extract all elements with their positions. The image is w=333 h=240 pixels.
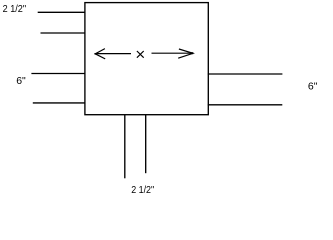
wire right stub 1 (6" branch) — [208, 73, 283, 75]
dimension arrow left head — [95, 49, 105, 59]
wire bottom stub A (2 1/2" branch) — [124, 115, 126, 179]
svg-text:6": 6" — [308, 80, 318, 92]
dimension arrow right tip blob — [190, 52, 193, 54]
wire left stub 1 (2 1/2" branch) — [38, 11, 86, 13]
svg-text:2 1/2": 2 1/2" — [3, 3, 27, 15]
fitting body box — [85, 3, 208, 115]
dimension arrow right shaft — [152, 52, 194, 54]
dimension arrow left tip blob — [95, 53, 97, 55]
dimension arrow left shaft — [95, 53, 131, 55]
wire left stub 3 (6" branch) — [31, 73, 85, 75]
label x (unknown dimension) — [137, 51, 144, 58]
wire right stub 2 — [208, 104, 282, 106]
svg-text:2 1/2": 2 1/2" — [131, 184, 154, 196]
wire bottom stub B — [145, 115, 147, 174]
svg-text:6": 6" — [16, 75, 26, 87]
dimension arrow right head — [178, 49, 193, 58]
wire left stub 2 — [41, 32, 86, 34]
wire left stub 4 — [33, 102, 86, 104]
